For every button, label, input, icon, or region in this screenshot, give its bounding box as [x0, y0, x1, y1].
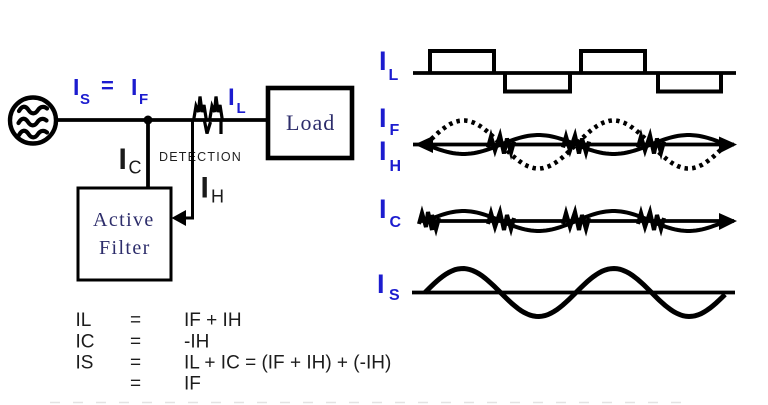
IS source current (sine)	[425, 269, 725, 317]
svg-text:S: S	[80, 91, 90, 108]
svg-text:I: I	[228, 84, 235, 111]
IL waveform axis	[413, 71, 736, 75]
equation row 3: IS = IL + IC = (IF + IH) + (-IH)	[76, 353, 392, 374]
faint cropped dotted line at bottom	[50, 402, 692, 404]
svg-text:Load: Load	[286, 110, 335, 135]
svg-text:DETECTION: DETECTION	[159, 150, 242, 164]
svg-text:=: =	[130, 332, 141, 353]
equation row 4: = IF	[130, 374, 201, 395]
svg-text:=: =	[130, 353, 141, 374]
IF fundamental (dotted sine)	[426, 121, 726, 169]
node: junction	[144, 116, 153, 125]
equation row 2: IC = -IH	[76, 332, 210, 353]
svg-text:C: C	[129, 158, 142, 178]
svg-text:H: H	[390, 158, 402, 175]
IH harmonic (solid small sine)	[426, 135, 726, 154]
detection feedback wire	[183, 121, 193, 218]
label IS (waveform)	[377, 269, 400, 304]
IC right arrow	[719, 213, 737, 230]
svg-text:=: =	[101, 73, 114, 98]
IH left arrow	[415, 136, 434, 153]
svg-text:Filter: Filter	[99, 237, 151, 259]
svg-text:F: F	[139, 91, 148, 108]
svg-text:IF: IF	[184, 374, 201, 395]
svg-text:I: I	[379, 194, 387, 224]
load box	[268, 88, 352, 158]
IC spikes at crossings	[488, 212, 514, 230]
wire: junction to active filter	[146, 120, 150, 189]
svg-text:IL: IL	[76, 310, 92, 331]
svg-text:IL + IC = (IF + IH) + (-IH): IL + IC = (IF + IH) + (-IH)	[184, 353, 391, 374]
svg-text:I: I	[377, 269, 385, 299]
label IL (circuit)	[228, 84, 246, 117]
IC left spike	[419, 212, 439, 230]
wire: source to load	[56, 118, 268, 122]
label IC	[119, 143, 142, 178]
svg-text:C: C	[390, 214, 402, 231]
svg-text:Active: Active	[93, 209, 155, 231]
svg-text:I: I	[201, 172, 209, 205]
svg-text:I: I	[73, 74, 79, 100]
svg-text:=: =	[130, 374, 141, 395]
svg-text:IF + IH: IF + IH	[184, 310, 242, 331]
IC compensating current (solid small sine)	[426, 211, 726, 231]
svg-text:I: I	[379, 103, 387, 133]
equation row 1: IL = IF + IH	[76, 310, 242, 331]
svg-text:I: I	[119, 143, 127, 176]
arrowhead into active filter	[172, 210, 187, 226]
label IL (waveform)	[379, 46, 399, 84]
svg-text:S: S	[389, 287, 400, 304]
label IH	[201, 172, 225, 207]
svg-text:L: L	[237, 100, 246, 117]
IL square wave pulses	[430, 51, 721, 92]
label IS = IF	[73, 73, 148, 108]
svg-text:I: I	[131, 74, 137, 100]
svg-text:I: I	[379, 136, 387, 166]
ac source V1	[10, 98, 56, 144]
svg-text:=: =	[130, 310, 141, 331]
IH spikes at crossings	[488, 136, 514, 154]
current sensor (detection CT) on line	[194, 97, 223, 135]
svg-text:IS: IS	[76, 353, 94, 374]
label IH (waveform)	[379, 136, 401, 175]
svg-text:IC: IC	[76, 332, 95, 353]
svg-text:F: F	[390, 122, 400, 139]
svg-text:L: L	[389, 67, 399, 84]
svg-text:H: H	[211, 187, 224, 207]
label IF (waveform)	[379, 103, 400, 139]
IC waveform axis	[421, 219, 734, 223]
IS waveform axis	[412, 291, 735, 295]
label IC (waveform)	[379, 194, 402, 231]
IF/IH waveform axis	[413, 143, 734, 147]
IH right arrow	[719, 137, 737, 154]
svg-text:I: I	[379, 46, 387, 76]
active filter box	[78, 188, 171, 280]
svg-text:-IH: -IH	[184, 332, 209, 353]
